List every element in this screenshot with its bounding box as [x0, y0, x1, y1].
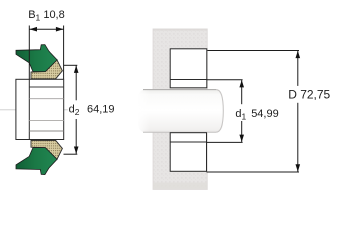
- D extension line top: [207, 50, 299, 52]
- d2 dimension line: [75, 65, 77, 100]
- d1 arrow down: [239, 135, 244, 142]
- svg-text:B1 10,8: B1 10,8: [28, 9, 65, 22]
- d1 extension line bottom: [207, 141, 243, 143]
- d1 arrow up: [239, 80, 244, 87]
- B1 arrow right: [56, 27, 64, 32]
- D extension line bottom: [207, 171, 300, 173]
- sleeve inner line top: [29, 86, 63, 88]
- D arrow up: [296, 51, 301, 58]
- sleeve ring box: [16, 79, 64, 139]
- svg-text:d264,19: d264,19: [69, 103, 115, 117]
- d2 extension line bottom: [64, 153, 78, 155]
- D arrow down: [296, 164, 301, 171]
- shaft: [136, 89, 223, 133]
- d1 extension line top: [207, 79, 243, 81]
- bore recess top inner line: [170, 79, 207, 81]
- bore recess bottom: [170, 133, 206, 172]
- housing top shade: [153, 29, 207, 31]
- svg-text:d154,99: d154,99: [235, 108, 278, 122]
- top seal (green rubber + fabric): [16, 45, 62, 79]
- sleeve faint line 2: [29, 120, 63, 122]
- d2 arrow up: [74, 66, 79, 73]
- sleeve divider line: [28, 79, 30, 139]
- d2 arrow down: [74, 147, 79, 154]
- B1 dimension line: [29, 28, 63, 30]
- svg-text:D 72,75: D 72,75: [288, 87, 330, 101]
- housing block: [153, 29, 207, 189]
- B1 arrow left: [30, 27, 38, 32]
- d1 dimension line: [241, 80, 243, 104]
- sleeve faint line 1: [29, 98, 63, 100]
- fabric back: [31, 60, 62, 79]
- B1 extension line left: [28, 26, 30, 80]
- rubber body: [16, 45, 57, 72]
- d2 extension line top: [64, 64, 78, 66]
- sleeve inner line bottom: [29, 130, 63, 132]
- housing bottom shade: [153, 183, 207, 190]
- D dimension line: [297, 51, 299, 86]
- bore recess bottom inner line: [170, 141, 206, 143]
- bottom seal (mirrored): [16, 140, 62, 174]
- bore recess top: [170, 49, 207, 88]
- B1 extension line right: [63, 26, 65, 80]
- axis centerline: [0, 109, 68, 111]
